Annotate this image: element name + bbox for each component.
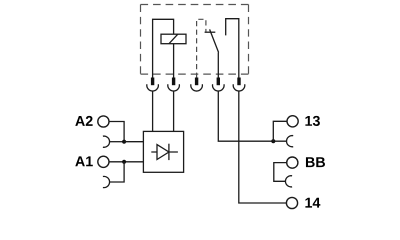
wire: plug 1 up and over to coil top xyxy=(153,19,174,78)
contact blade (NO contact, open) xyxy=(210,29,219,52)
fixed contact bar of NO contact xyxy=(205,31,216,33)
wire: blade to plug 4 xyxy=(217,53,219,78)
wire: A2 test socket to junction xyxy=(110,141,124,143)
plug-socket contact 4 (pin) xyxy=(217,78,220,86)
plug-socket contact 1 (pin) xyxy=(151,78,154,86)
plug-socket contact 2 (socket arc) xyxy=(168,84,180,91)
wire: plug 4 down and right to terminal 13 xyxy=(218,91,286,141)
test socket below A2 xyxy=(103,136,110,147)
input protection box xyxy=(143,131,183,172)
terminal BB (screw clamp circle) xyxy=(287,157,298,168)
wire: plug 2 down to rectifier box xyxy=(173,91,175,131)
wire: A1 test socket up to junction xyxy=(110,162,124,182)
terminal 14 (screw clamp circle) xyxy=(286,197,297,208)
terminal A2 (screw clamp circle) xyxy=(98,116,109,127)
terminal label BB xyxy=(306,157,325,167)
terminal label 14 xyxy=(305,198,320,208)
terminal A1 (screw clamp circle) xyxy=(98,156,109,167)
plug-socket contact 1 (socket arc) xyxy=(147,84,159,91)
terminal label 13 xyxy=(305,116,319,126)
plug-socket contact 4 (socket arc) xyxy=(213,84,225,91)
wire: coil bottom to plug 2 xyxy=(173,44,175,78)
wire: fixed contact stub over to plug 5 xyxy=(226,19,239,78)
junction on 13 branch xyxy=(271,139,275,143)
plug-socket contact 3 (socket arc) xyxy=(191,84,203,91)
junction on A2 branch xyxy=(122,140,126,144)
plug-socket contact 5 (pin) xyxy=(237,78,240,86)
wire: A2 to junction xyxy=(109,122,124,142)
test socket below 13 xyxy=(287,136,294,147)
wire: BB bridge loop to its test socket xyxy=(274,163,287,182)
wire: junction up to 13 circle xyxy=(273,121,287,141)
terminal label A2 xyxy=(75,116,92,126)
wire: A2 junction into protection box xyxy=(124,141,143,143)
plug-socket contact 2 (pin) xyxy=(172,78,175,86)
wire: plug 1 down to rectifier box xyxy=(152,91,154,131)
junction on A1 branch xyxy=(122,160,126,164)
terminal label A1 xyxy=(75,156,93,166)
terminal 13 (screw clamp circle) xyxy=(287,116,298,127)
mechanical link (dashed) from plug 3 to contact actuator xyxy=(197,19,206,78)
test socket below A1 xyxy=(103,176,110,187)
test socket below BB xyxy=(285,176,292,187)
wire: plug 5 down and right to terminal 14 xyxy=(239,91,287,203)
plug-socket contact 5 (socket arc) xyxy=(233,84,245,91)
relay coil K1 xyxy=(161,34,186,44)
wire: A1 into protection box xyxy=(109,161,144,163)
diode D1 xyxy=(151,144,178,160)
plug-socket contact 3 (pin) xyxy=(195,78,198,86)
relay module housing (dashed box) xyxy=(141,5,249,75)
